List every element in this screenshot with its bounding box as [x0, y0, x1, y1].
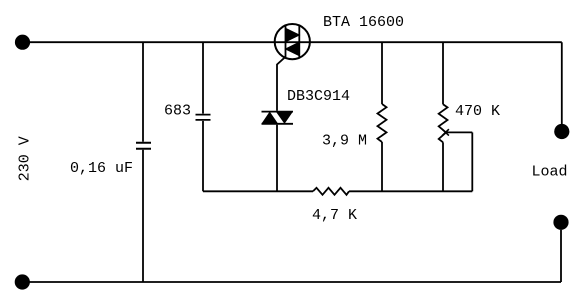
wire triac gate	[277, 57, 286, 111]
svg-text:230 V: 230 V	[16, 136, 33, 181]
wire inner bottom right segment	[349, 190, 472, 192]
potentiometer R2 470 K	[439, 104, 448, 142]
wire diac to bottom node	[276, 125, 278, 192]
wire right drop to Load top terminal	[561, 42, 563, 124]
terminal dot Load top	[554, 124, 569, 139]
wire bottom rail	[22, 281, 561, 283]
potentiometer wiper arrow	[442, 129, 472, 135]
wire C1 branch lower	[142, 150, 144, 282]
wire R1 branch lower	[381, 142, 383, 191]
diac D1 DB3C914	[262, 112, 294, 124]
wire C2 branch lower	[202, 121, 204, 191]
svg-text:DB3C914: DB3C914	[287, 88, 350, 105]
svg-text:Load: Load	[532, 164, 568, 181]
terminal dot 230V top	[15, 35, 30, 50]
terminal dot 230V bottom	[15, 274, 30, 289]
svg-text:BTA 16600: BTA 16600	[323, 14, 404, 31]
resistor R3 4,7 K	[313, 188, 349, 195]
svg-text:0,16 uF: 0,16 uF	[70, 160, 133, 177]
resistor R1 3,9 M	[378, 104, 387, 142]
wire C1 branch upper	[142, 42, 144, 142]
wire wiper down	[471, 132, 473, 191]
wire R2 branch upper	[442, 42, 444, 104]
wire C2 branch upper	[202, 42, 204, 113]
wire top rail	[23, 41, 562, 43]
svg-text:683: 683	[164, 103, 191, 120]
terminal dot Load bottom	[553, 215, 568, 230]
wire Load bottom terminal drop	[560, 230, 562, 282]
capacitor C1 0,16 uF	[136, 143, 151, 149]
capacitor C2 683	[196, 115, 211, 120]
wire inner bottom left segment	[203, 190, 313, 192]
wire R2 branch lower	[442, 142, 444, 191]
triac U1 BTA 16600	[275, 24, 310, 59]
svg-text:470 K: 470 K	[455, 103, 500, 120]
svg-text:4,7 K: 4,7 K	[312, 207, 357, 224]
wire R1 branch upper	[381, 42, 383, 104]
svg-text:3,9 M: 3,9 M	[322, 133, 367, 150]
